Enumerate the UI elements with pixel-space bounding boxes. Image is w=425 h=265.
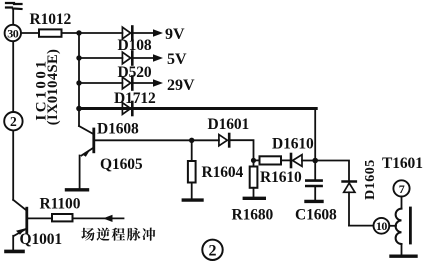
svg-text:T1601: T1601 xyxy=(382,155,423,172)
ground (C1608) xyxy=(306,200,322,203)
resistor R1610 (horizontal) xyxy=(254,156,291,164)
ground (R1604) xyxy=(183,198,202,201)
ground (Q1001) xyxy=(6,250,23,254)
wire to pin 10 xyxy=(349,225,373,227)
svg-text:R1610: R1610 xyxy=(260,169,302,186)
svg-text:R1100: R1100 xyxy=(40,195,81,212)
svg-text:D1610: D1610 xyxy=(272,135,314,152)
diode (row 3) xyxy=(122,77,132,90)
junction dots xyxy=(76,30,81,35)
resistor R1100 xyxy=(52,214,73,221)
svg-text:D1608: D1608 xyxy=(97,121,139,138)
wire rail corner down right side xyxy=(314,109,316,161)
diode D1601 xyxy=(219,134,229,146)
svg-text:5V: 5V xyxy=(167,51,187,68)
diode (row 2, labeled D108? D520 row) xyxy=(122,52,132,65)
wire + arrow to 29V xyxy=(134,79,164,86)
node 2 xyxy=(4,112,22,130)
wire Q1605 base to D1601 xyxy=(95,139,219,141)
wire Q1001 base to R1100 xyxy=(28,217,52,219)
resistor R1680 (vertical) xyxy=(250,160,258,197)
rail (thick) row4 xyxy=(79,107,316,110)
wire + arrow to 5V xyxy=(134,54,164,61)
figure number circle 2 xyxy=(202,240,222,260)
ground (top left) xyxy=(6,3,22,24)
wire node2 down to Q1001 collector xyxy=(12,130,14,199)
transformer T1601 winding xyxy=(396,197,402,255)
node 7 xyxy=(393,180,409,196)
resistor R1604 (vertical) xyxy=(188,140,196,199)
svg-text:2: 2 xyxy=(209,242,217,259)
resistor R1012 xyxy=(39,29,62,36)
svg-text:D1712: D1712 xyxy=(114,90,156,107)
svg-text:D108: D108 xyxy=(118,37,152,54)
svg-text:30: 30 xyxy=(7,27,19,41)
svg-text:D1601: D1601 xyxy=(208,116,250,133)
transformer core xyxy=(409,208,412,243)
node 30 xyxy=(5,25,21,41)
wire junction to D1605 branch xyxy=(315,161,349,182)
ground (R1680) xyxy=(244,197,264,200)
ground (Q1605) xyxy=(67,188,88,191)
junction dot right xyxy=(312,158,318,164)
svg-text:Q1001: Q1001 xyxy=(20,231,63,248)
svg-text:Q1605: Q1605 xyxy=(100,156,143,173)
wire + arrow to 9V xyxy=(134,29,164,36)
wire node10 to coil xyxy=(389,225,396,227)
diode D1605 (vertical, cathode up) xyxy=(343,182,356,226)
svg-text:R1680: R1680 xyxy=(232,206,274,223)
svg-text:R1604: R1604 xyxy=(202,164,244,181)
junction node (R1604 top) xyxy=(189,138,194,143)
wire D1601 to corner down to junction xyxy=(230,140,253,160)
svg-text:10: 10 xyxy=(376,219,388,233)
wire node30 to node2 xyxy=(12,42,14,112)
svg-text:9V: 9V xyxy=(165,26,185,43)
wire row2 xyxy=(79,57,122,59)
svg-text:29V: 29V xyxy=(167,77,195,94)
svg-text:(IX0104SE): (IX0104SE) xyxy=(45,49,61,126)
svg-text:D520: D520 xyxy=(118,64,152,81)
junction dot xyxy=(251,158,256,163)
diode D1712 symbol on rail xyxy=(122,102,132,115)
svg-text:2: 2 xyxy=(10,114,17,129)
text 场逆程脉冲 (field retrace pulse) as paths xyxy=(81,228,155,241)
wire node30 to R1012 xyxy=(22,32,40,34)
transistor Q1001 xyxy=(13,200,27,250)
svg-text:7: 7 xyxy=(399,182,405,196)
svg-text:C1608: C1608 xyxy=(295,206,337,223)
diode D1610 (pointing left) xyxy=(291,154,315,167)
node 10 xyxy=(374,218,390,234)
node/junction trunk xyxy=(78,33,80,109)
svg-text:D1605: D1605 xyxy=(363,159,378,200)
transistor Q1605 xyxy=(79,109,94,189)
wire R1012 to D108 xyxy=(62,32,123,34)
capacitor C1608 xyxy=(306,161,321,200)
diode D108 (row 1) xyxy=(122,27,132,40)
wire + left arrow (field retrace pulse input) xyxy=(73,215,124,222)
svg-text:R1012: R1012 xyxy=(30,11,72,28)
ground (T1601) xyxy=(391,255,416,258)
wire row3 xyxy=(79,82,122,84)
